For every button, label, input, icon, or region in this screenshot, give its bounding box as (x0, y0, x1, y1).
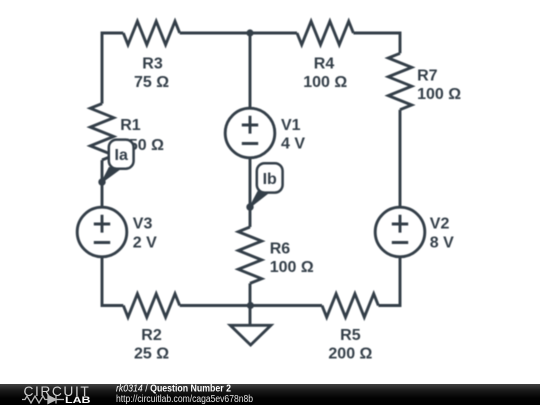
ground (230, 306, 271, 346)
resistor R4 (297, 21, 353, 44)
svg-text:rk0314 / Question Number 2: rk0314 / Question Number 2 (116, 383, 231, 395)
node junction top (246, 29, 253, 36)
wire middle branch top (249, 33, 252, 108)
wire right middle (399, 110, 402, 207)
footer title text (116, 383, 253, 405)
wire top-left corner (102, 33, 123, 104)
voltage source V3 (77, 207, 127, 257)
wire bottom-left corner (102, 257, 123, 306)
node ground junction (247, 302, 254, 309)
wire V1 to R6 (249, 158, 252, 227)
wire bottom middle (180, 304, 322, 307)
wire top middle (180, 32, 297, 35)
wire bottom-right corner (378, 257, 400, 306)
node Ia probe (98, 178, 105, 185)
current flag Ib (250, 163, 283, 207)
voltage source V2 (375, 207, 425, 257)
current flag Ia (102, 140, 134, 182)
resistor R3 (123, 21, 179, 44)
wire R6 to bottom (249, 283, 252, 305)
resistor R7 (388, 53, 411, 109)
footer bar (0, 384, 540, 405)
resistor R1 (90, 104, 113, 160)
resistor R2 (123, 294, 179, 317)
node Ib probe (246, 203, 253, 210)
voltage source V1 (225, 108, 275, 158)
wire left middle (101, 160, 104, 207)
wire top-right corner (353, 33, 400, 53)
CircuitLab logo (22, 384, 91, 405)
resistor R5 (322, 294, 378, 317)
resistor R6 (238, 227, 261, 283)
svg-text:http://circuitlab.com/caga5ev6: http://circuitlab.com/caga5ev678n8b (116, 394, 253, 405)
svg-text:LAB: LAB (65, 395, 91, 405)
